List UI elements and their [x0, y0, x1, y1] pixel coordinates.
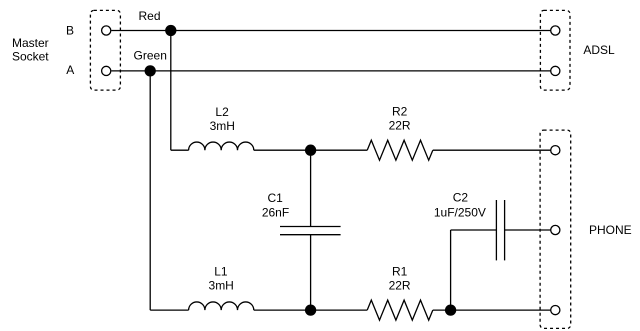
svg-text:PHONE: PHONE [589, 223, 632, 237]
svg-text:L1: L1 [214, 265, 228, 279]
svg-text:3mH: 3mH [209, 279, 234, 293]
svg-text:B: B [66, 24, 74, 38]
svg-text:22R: 22R [389, 279, 411, 293]
svg-text:A: A [66, 63, 74, 77]
svg-text:R1: R1 [392, 265, 408, 279]
svg-text:L2: L2 [215, 105, 229, 119]
svg-text:22R: 22R [389, 119, 411, 133]
svg-text:1uF/250V: 1uF/250V [434, 205, 486, 219]
svg-text:3mH: 3mH [210, 119, 235, 133]
svg-text:Master: Master [12, 36, 49, 50]
svg-text:R2: R2 [392, 105, 408, 119]
svg-text:Red: Red [138, 9, 160, 23]
svg-text:ADSL: ADSL [583, 43, 615, 57]
svg-text:C1: C1 [268, 191, 284, 205]
svg-text:Socket: Socket [12, 50, 49, 64]
svg-text:C2: C2 [453, 190, 469, 204]
svg-text:26nF: 26nF [262, 205, 289, 219]
svg-text:Green: Green [134, 49, 167, 63]
